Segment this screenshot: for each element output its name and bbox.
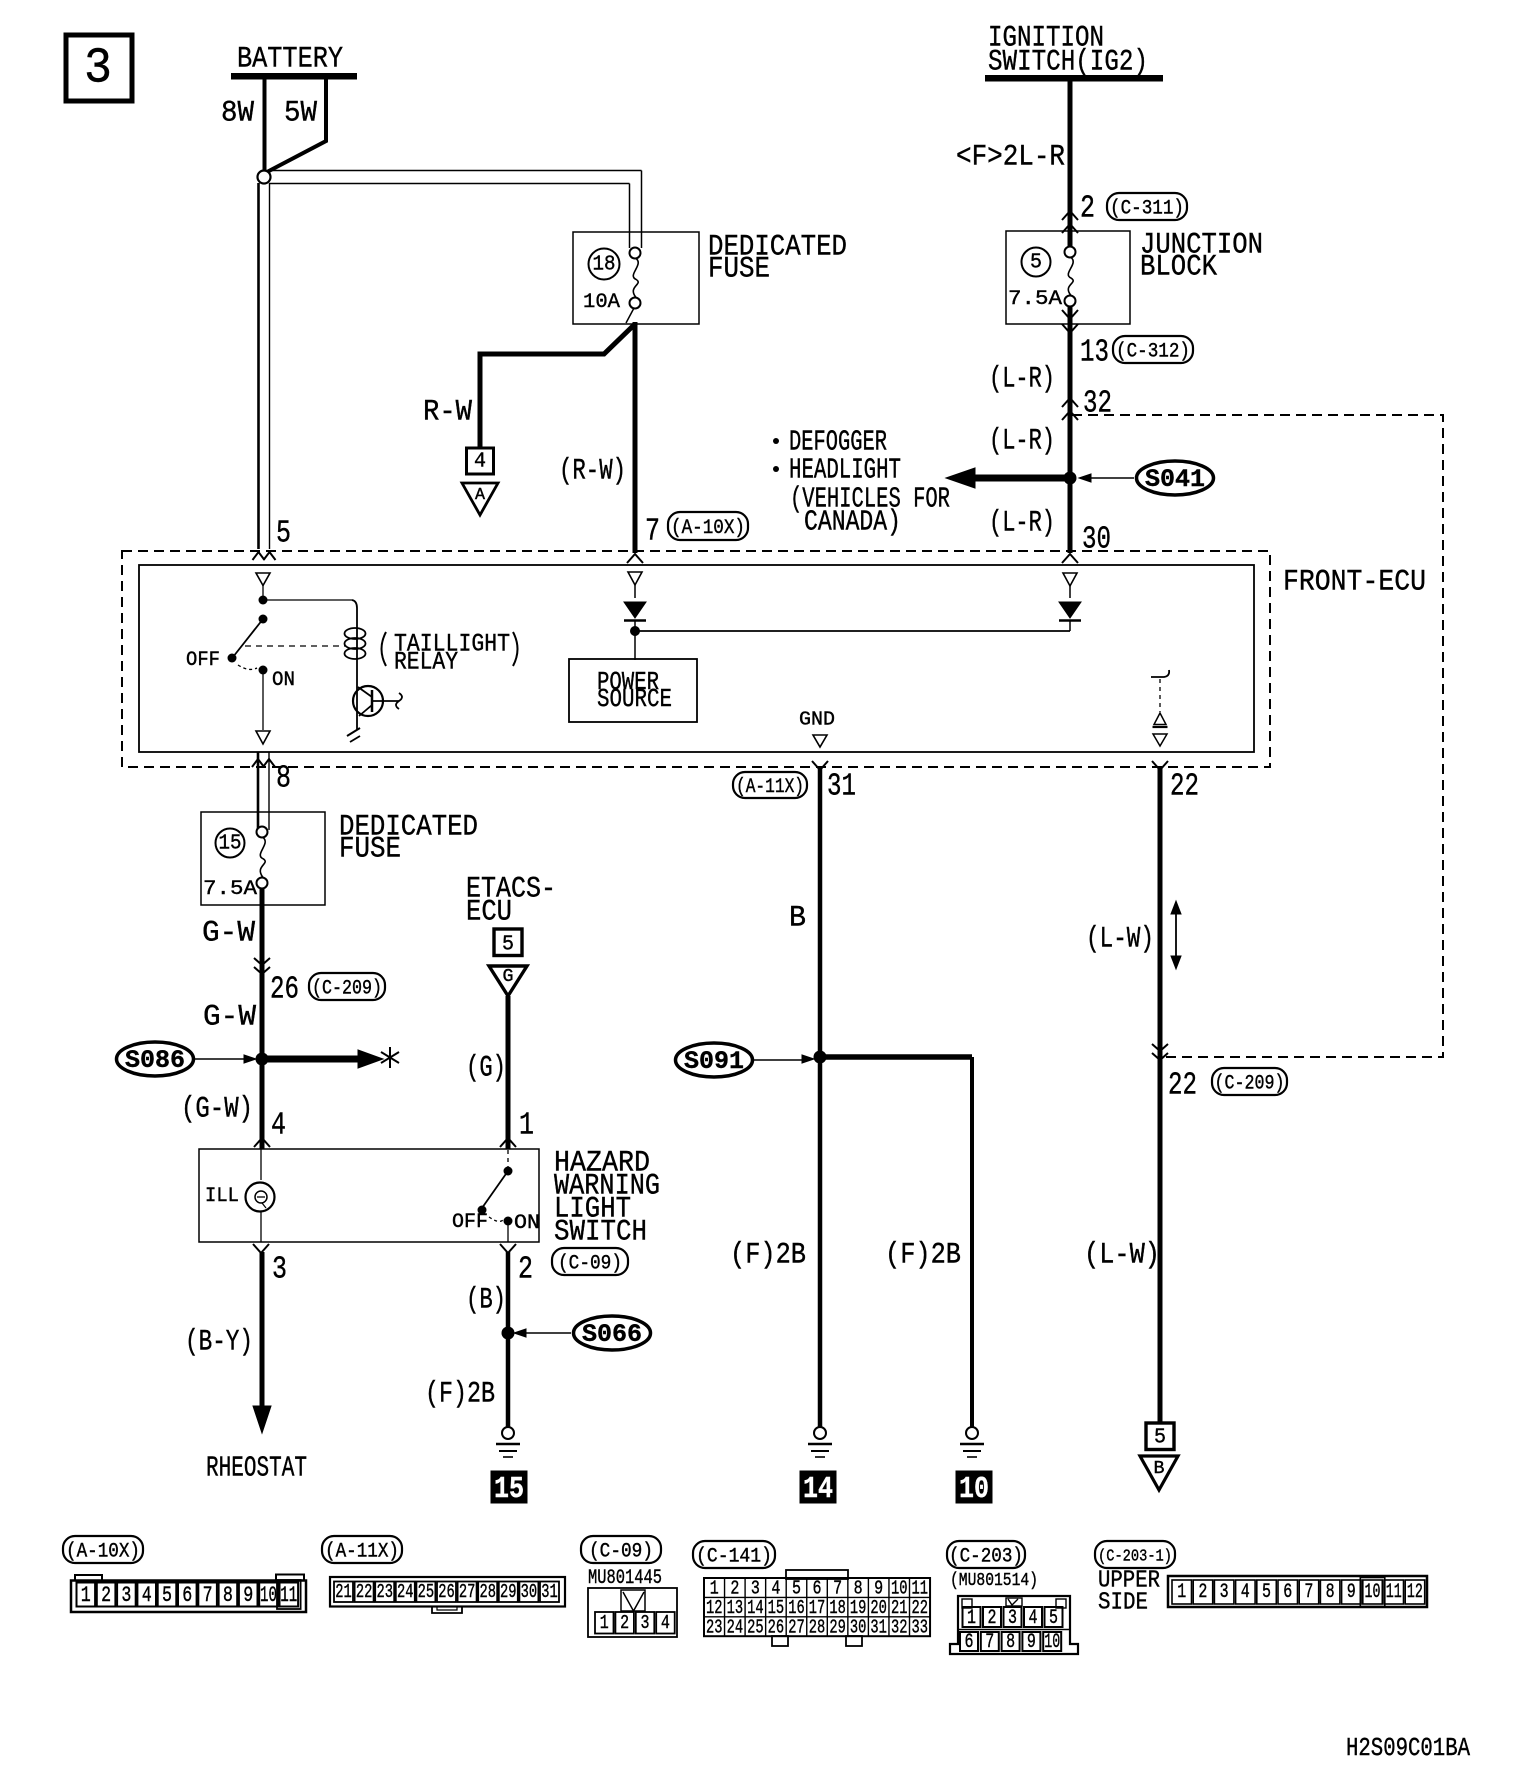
wire B hazard to ground: [506, 1252, 511, 1427]
wire hollow battery down to pin 5: [259, 183, 270, 549]
svg-text:7: 7: [985, 1631, 994, 1654]
splice badge S086: [117, 1042, 194, 1076]
svg-text:(A-10X): (A-10X): [671, 517, 745, 540]
svg-text:B: B: [789, 902, 806, 936]
battery wire 5W: [267, 79, 326, 172]
dedicated fuse 18 box: [573, 232, 699, 324]
battery label: [237, 43, 343, 77]
front-ecu dashed extension: [1072, 415, 1443, 1057]
wire label B: [789, 902, 806, 936]
node diode junction: [630, 626, 640, 636]
pin 22 C-209 chevrons: [1152, 1044, 1168, 1060]
etacs terminal box 5: [494, 929, 522, 957]
pin 2 label: [1080, 192, 1095, 227]
svg-text:(R-W): (R-W): [559, 455, 626, 489]
svg-text:OFF: OFF: [452, 1211, 488, 1234]
S066 pointer arrow: [514, 1329, 571, 1337]
ground badge 10: [956, 1471, 992, 1507]
connector badge C-203: [947, 1541, 1025, 1569]
svg-text:9: 9: [243, 1583, 253, 1608]
wire label G-W 1: [202, 917, 255, 951]
diode D2: [1059, 602, 1081, 631]
svg-text:32: 32: [1083, 387, 1112, 422]
pin 3 label: [272, 1253, 287, 1288]
svg-text:10: 10: [959, 1472, 989, 1507]
svg-text:11: 11: [280, 1583, 297, 1608]
splice badge S066: [574, 1316, 651, 1350]
svg-text:1: 1: [519, 1109, 534, 1144]
svg-text:30: 30: [521, 1581, 538, 1603]
svg-text:29: 29: [500, 1581, 517, 1603]
wire B-Y to rheostat: [253, 1252, 271, 1433]
wire label (L-W) 1: [1086, 923, 1154, 957]
hazard OFF label: [452, 1211, 488, 1234]
svg-text:2: 2: [988, 1607, 997, 1630]
pin 1 label: [519, 1109, 534, 1144]
svg-text:26: 26: [438, 1581, 455, 1603]
etacs triangle G: [489, 966, 527, 1000]
junction block rating 7.5A: [1008, 288, 1062, 311]
connector badge C-209 left: [309, 973, 385, 1001]
svg-text:(B): (B): [466, 1284, 506, 1318]
pin 31 chevron: [812, 761, 828, 770]
drawing number: [1346, 1733, 1470, 1763]
svg-text:31: 31: [541, 1581, 558, 1603]
svg-text:S086: S086: [125, 1046, 185, 1075]
svg-text:(C-311): (C-311): [1110, 198, 1184, 221]
svg-text:(F)2B: (F)2B: [425, 1378, 495, 1412]
ground 10: [960, 1427, 984, 1457]
svg-text:5W: 5W: [284, 97, 317, 131]
wire L-R junction block down: [1068, 306, 1073, 553]
svg-text:G-W: G-W: [202, 917, 255, 951]
connector badge C-141: [693, 1541, 775, 1569]
svg-text:7.5A: 7.5A: [203, 878, 257, 901]
node S041 junction: [1064, 472, 1077, 485]
connector badge A-11X: [733, 772, 807, 799]
connector badge A-10X: [668, 512, 748, 540]
svg-text:(C-312): (C-312): [1116, 341, 1190, 364]
node battery junction: [258, 171, 271, 184]
svg-text:RELAY: RELAY: [394, 647, 458, 676]
svg-text:24: 24: [727, 1616, 744, 1638]
svg-text:(A-11X): (A-11X): [736, 776, 804, 799]
pin 30 entry triangle: [1063, 573, 1077, 598]
hazard warning light switch label: [554, 1147, 660, 1250]
pin 7 label: [645, 515, 660, 550]
svg-text:26: 26: [270, 973, 299, 1008]
connector badge A-10X bottom: [63, 1536, 143, 1564]
node S066 junction: [502, 1327, 515, 1340]
svg-text:(MU801514): (MU801514): [950, 1571, 1038, 1591]
diode D1: [624, 602, 646, 660]
svg-text:A: A: [475, 486, 486, 505]
svg-text:BATTERY: BATTERY: [237, 43, 343, 77]
svg-text:FRONT-ECU: FRONT-ECU: [1283, 566, 1426, 600]
power source box: [569, 659, 697, 722]
defogger headlight note: [773, 426, 950, 539]
svg-text:ON: ON: [514, 1212, 540, 1235]
svg-text:3: 3: [121, 1583, 131, 1608]
svg-text:(A-10X): (A-10X): [66, 1541, 140, 1564]
pin 13 label: [1080, 336, 1109, 371]
illumination lamp: [246, 1183, 275, 1212]
front-ecu label: [1283, 566, 1426, 600]
svg-text:(C-209): (C-209): [1215, 1073, 1285, 1096]
pin 3 chevron: [253, 1244, 269, 1253]
wire relay top: [263, 599, 352, 601]
fuse 18 element: [630, 248, 641, 309]
wire thick arrow to defogger: [946, 468, 1070, 488]
svg-text:31: 31: [870, 1616, 887, 1638]
wire B pin 31 to ground: [818, 768, 823, 1427]
svg-text:9: 9: [1027, 1631, 1036, 1654]
wire R-W from fuse 18: [480, 308, 635, 553]
ignition bus bar: [985, 75, 1163, 82]
S091 pointer arrow: [754, 1055, 814, 1063]
svg-text:22: 22: [1168, 1069, 1197, 1104]
rheostat label: [206, 1452, 307, 1485]
svg-text:22: 22: [356, 1581, 373, 1603]
svg-text:15: 15: [494, 1472, 524, 1507]
hazard switch output: [507, 1221, 509, 1242]
svg-text:MU801445: MU801445: [588, 1567, 662, 1590]
relay switch arm: [233, 615, 268, 658]
svg-text:2: 2: [1080, 192, 1095, 227]
svg-text:4: 4: [661, 1612, 670, 1634]
C-09 part number: [588, 1567, 662, 1590]
svg-text:6: 6: [182, 1583, 192, 1608]
ground badge 14: [800, 1471, 836, 1507]
svg-text:S091: S091: [684, 1047, 744, 1076]
svg-text:27: 27: [788, 1616, 805, 1638]
triangle B: [1140, 1456, 1178, 1490]
svg-text:(C-141): (C-141): [696, 1546, 772, 1569]
pin 22 label: [1170, 770, 1199, 805]
wire label (F)2B left: [425, 1378, 495, 1412]
svg-text:1: 1: [81, 1583, 91, 1608]
svg-text:12: 12: [1407, 1581, 1423, 1604]
hazard switch contact: [478, 1150, 513, 1226]
pin 26 chevrons: [254, 958, 270, 974]
svg-text:13: 13: [1080, 336, 1109, 371]
svg-text:5: 5: [1030, 252, 1042, 275]
taillight relay pin 5 triangle: [256, 573, 270, 596]
svg-text:2: 2: [101, 1583, 111, 1608]
svg-text:(L-R): (L-R): [989, 363, 1055, 397]
svg-text:26: 26: [768, 1616, 785, 1638]
connector badge A-11X bottom: [322, 1536, 402, 1564]
wire G-W fuse 15 down: [260, 888, 265, 1149]
junction block fuse circle 5: [1022, 248, 1051, 277]
svg-text:5: 5: [1049, 1607, 1058, 1630]
C-203 part number: [950, 1571, 1038, 1591]
gnd label: [799, 708, 835, 730]
connector A-10X pinout: [71, 1575, 306, 1613]
relay linkage dashed: [245, 645, 345, 647]
svg-text:(C-09): (C-09): [558, 1253, 622, 1276]
wire thick arrow to star: [262, 1050, 383, 1068]
pin 30 chevron: [1062, 554, 1078, 563]
wire label (L-R) 2: [989, 425, 1055, 459]
illumination lamp box: [199, 1149, 539, 1242]
etacs-ecu label: [466, 873, 556, 930]
connector C-09 pinout: [588, 1588, 677, 1637]
relay output wire: [262, 670, 264, 730]
svg-text:2: 2: [1198, 1581, 1207, 1604]
pin 13 chevrons: [1062, 310, 1078, 333]
svg-text:5: 5: [1262, 1581, 1271, 1604]
svg-text:1: 1: [600, 1612, 609, 1634]
svg-text:FUSE: FUSE: [339, 833, 401, 867]
svg-text:5: 5: [276, 517, 291, 552]
hazard ON label: [514, 1212, 540, 1235]
pin 5 chevrons: [253, 552, 276, 560]
pin 22 chevron: [1152, 761, 1168, 770]
taillight relay label: [382, 629, 518, 676]
svg-text:1: 1: [967, 1607, 976, 1630]
svg-text:18: 18: [593, 254, 616, 277]
svg-text:(L-R): (L-R): [989, 507, 1055, 541]
svg-text:ON: ON: [272, 669, 295, 692]
svg-text:SIDE: SIDE: [1098, 1590, 1148, 1617]
wire hollow pin 8 to fuse 15: [258, 752, 269, 830]
svg-text:(A-11X): (A-11X): [325, 1541, 399, 1564]
transistor ground: [347, 728, 360, 742]
wire label (B): [466, 1284, 506, 1318]
battery wire 8W: [221, 79, 265, 172]
wire internal bus: [635, 630, 1070, 632]
svg-text:2: 2: [518, 1253, 533, 1288]
connector badge C-09 top: [552, 1248, 628, 1276]
wire label (L-R) 3: [989, 507, 1055, 541]
svg-text:7: 7: [645, 515, 660, 550]
connector C-203 pinout: [950, 1596, 1078, 1654]
svg-text:5: 5: [162, 1583, 172, 1608]
front-ecu inner box: [139, 565, 1254, 752]
svg-text:SWITCH: SWITCH: [554, 1216, 647, 1250]
svg-text:6: 6: [965, 1631, 974, 1654]
node S086 junction: [256, 1053, 269, 1066]
relay pin 8 triangle: [256, 731, 270, 744]
svg-text:3: 3: [1220, 1581, 1229, 1604]
pin 4 label: [271, 1109, 286, 1144]
fuse 15 rating 7.5A: [203, 878, 257, 901]
svg-text:33: 33: [912, 1616, 929, 1638]
svg-text:4: 4: [1241, 1581, 1250, 1604]
pin 4 chevron: [254, 1138, 270, 1147]
dedicated fuse 18 label: [708, 231, 847, 287]
taillight relay coil: [345, 600, 366, 686]
ground 15: [496, 1427, 520, 1457]
pin 2 chevrons: [1062, 211, 1078, 233]
svg-text:11: 11: [1386, 1581, 1402, 1604]
dedicated fuse 15 box: [201, 812, 325, 905]
svg-text:4: 4: [142, 1583, 152, 1608]
wire label (G-W): [181, 1093, 253, 1127]
battery bus bar: [231, 73, 357, 80]
svg-text:1: 1: [1177, 1581, 1186, 1604]
pin 5 label: [276, 517, 291, 552]
svg-text:(C-203): (C-203): [949, 1546, 1023, 1569]
svg-text:B: B: [1154, 1459, 1165, 1479]
ground 14: [808, 1427, 832, 1457]
pin 22 C-209 label: [1168, 1069, 1197, 1104]
svg-text:27: 27: [459, 1581, 476, 1603]
wire label (F)2B mid2: [885, 1239, 961, 1273]
svg-text:R-W: R-W: [423, 396, 472, 430]
svg-text:(G): (G): [466, 1052, 506, 1086]
svg-text:15: 15: [219, 833, 242, 856]
svg-text:8W: 8W: [221, 97, 254, 131]
svg-text:10A: 10A: [583, 291, 620, 314]
svg-text:21: 21: [335, 1581, 352, 1603]
fuse 15 number circle: [216, 829, 245, 858]
connector badge C-311: [1107, 193, 1187, 221]
fuse 18 number circle: [589, 249, 620, 280]
svg-text:8: 8: [1006, 1631, 1015, 1654]
connector badge C-09 bottom: [581, 1536, 661, 1564]
wire label (R-W): [559, 455, 626, 489]
front-ecu dashed outline: [122, 551, 1270, 767]
svg-text:2: 2: [620, 1612, 629, 1634]
svg-text:6: 6: [1283, 1581, 1292, 1604]
wire hollow battery to fuse 18: [269, 171, 642, 249]
svg-text:10: 10: [1044, 1631, 1060, 1654]
relay driver transistor: [353, 686, 402, 730]
connector badge C-203-1: [1095, 1541, 1175, 1568]
wire label G-W 2: [203, 1001, 256, 1035]
svg-text:4: 4: [271, 1109, 286, 1144]
sheet number box 3: [66, 35, 132, 101]
internal sensor symbol: [1151, 670, 1169, 746]
svg-text:4: 4: [1029, 1607, 1038, 1630]
svg-text:FUSE: FUSE: [708, 253, 770, 287]
svg-text:G: G: [503, 967, 514, 987]
wire label (G): [466, 1052, 506, 1086]
pin 7 chevron: [627, 554, 643, 563]
svg-text:4: 4: [474, 451, 486, 474]
svg-text:(C-203-1): (C-203-1): [1098, 1548, 1172, 1567]
svg-text:24: 24: [397, 1581, 414, 1603]
wire ILL internal: [260, 1149, 262, 1242]
node relay common: [259, 596, 268, 605]
svg-text:GND: GND: [799, 708, 835, 730]
svg-text:ILL: ILL: [205, 1185, 239, 1208]
svg-text:7: 7: [203, 1583, 213, 1608]
pin 32 label: [1083, 387, 1112, 422]
svg-text:H2S09C01BA: H2S09C01BA: [1346, 1733, 1470, 1763]
fuse 15 element: [257, 827, 268, 889]
svg-text:(C-209): (C-209): [312, 978, 382, 1001]
svg-text:S041: S041: [1145, 465, 1205, 494]
ILL label: [205, 1185, 239, 1208]
connector badge C-209 right: [1212, 1068, 1287, 1096]
S041 pointer arrow: [1079, 474, 1134, 482]
pin 30 label: [1082, 523, 1111, 558]
svg-text:(L-W): (L-W): [1086, 923, 1154, 957]
gnd triangle: [813, 735, 827, 747]
svg-text:OFF: OFF: [186, 649, 220, 672]
svg-text:3: 3: [641, 1612, 650, 1634]
svg-text:SWITCH(IG2): SWITCH(IG2): [988, 46, 1148, 80]
svg-text:5: 5: [502, 934, 514, 957]
wire label (F)2L-R: [956, 141, 1065, 175]
svg-text:10: 10: [260, 1583, 277, 1608]
svg-text:9: 9: [1347, 1581, 1356, 1604]
svg-text:CANADA): CANADA): [804, 506, 901, 539]
junction block box: [1006, 231, 1130, 324]
svg-text:3: 3: [1008, 1607, 1017, 1630]
svg-text:8: 8: [1326, 1581, 1335, 1604]
ground badge 15: [491, 1471, 527, 1507]
svg-text:29: 29: [829, 1616, 846, 1638]
pin 2 label: [518, 1253, 533, 1288]
wire ignition to junction block: [1068, 81, 1073, 247]
connector C-141 pinout: [704, 1570, 930, 1646]
svg-text:23: 23: [376, 1581, 393, 1603]
svg-text:3: 3: [84, 41, 112, 98]
svg-text:BLOCK: BLOCK: [1140, 251, 1217, 285]
svg-text:7.5A: 7.5A: [1008, 288, 1062, 311]
pin 31 label: [827, 770, 856, 805]
relay ON contact: [259, 666, 296, 693]
junction block label: [1140, 229, 1263, 285]
svg-text:30: 30: [1082, 523, 1111, 558]
triangle A: [462, 483, 498, 515]
pin 8 chevrons: [252, 759, 275, 767]
svg-text:(C-09): (C-09): [589, 1541, 653, 1564]
ignition switch label: [988, 22, 1148, 80]
pin 1 chevron: [500, 1138, 516, 1147]
terminal box 4: [467, 448, 494, 474]
connector A-11X pinout: [330, 1577, 565, 1613]
wire label (B-Y): [185, 1326, 253, 1360]
upper side label: [1098, 1568, 1160, 1617]
pin 26 label: [270, 973, 299, 1008]
svg-text:23: 23: [706, 1616, 723, 1638]
connector badge C-312: [1113, 336, 1193, 364]
svg-text:8: 8: [276, 762, 291, 797]
wire label (F)2B mid1: [730, 1239, 806, 1273]
wire thick S091 branch: [820, 1057, 972, 1427]
S086 pointer arrow: [195, 1055, 256, 1063]
pin 8 label: [276, 762, 291, 797]
svg-text:(L-R): (L-R): [989, 425, 1055, 459]
junction block fuse element: [1065, 247, 1076, 307]
updown arrow: [1171, 901, 1181, 969]
fuse 18 rating 10A: [583, 291, 620, 314]
svg-text:25: 25: [747, 1616, 764, 1638]
svg-text:(L-W): (L-W): [1084, 1239, 1160, 1273]
pin 32 chevrons: [1062, 398, 1078, 420]
svg-text:(F)2B: (F)2B: [885, 1239, 961, 1273]
svg-text:ECU: ECU: [466, 896, 512, 930]
wire label (L-W) 2: [1084, 1239, 1160, 1273]
pin 2 chevron: [500, 1244, 516, 1253]
svg-text:(G-W): (G-W): [181, 1093, 253, 1127]
svg-text:32: 32: [891, 1616, 908, 1638]
node S091 junction: [814, 1051, 827, 1064]
svg-text:28: 28: [809, 1616, 826, 1638]
asterisk: [381, 1047, 399, 1068]
connector C-203-1 pinout: [1168, 1576, 1427, 1607]
svg-text:25: 25: [418, 1581, 435, 1603]
svg-text:28: 28: [479, 1581, 496, 1603]
wire label (L-R) 1: [989, 363, 1055, 397]
terminal box 5 right: [1146, 1423, 1174, 1450]
pin 7 entry triangle: [628, 572, 642, 598]
